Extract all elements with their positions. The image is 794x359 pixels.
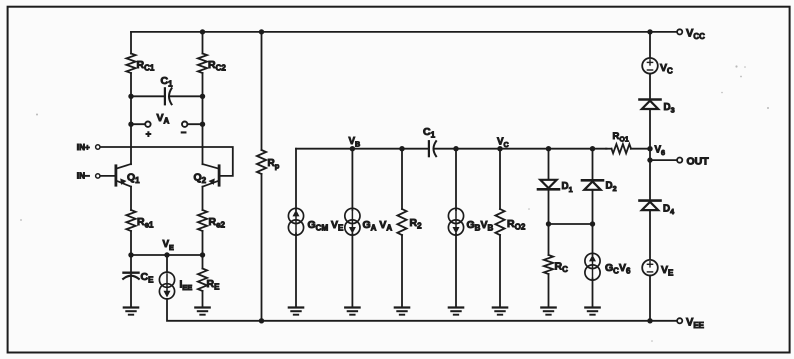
node GB junction [453, 146, 458, 151]
transistor Q2 [203, 164, 220, 187]
diode D2 [582, 180, 603, 190]
wire VA left stub [131, 123, 145, 125]
wire C1 right [171, 95, 203, 97]
svg-text:RO2: RO2 [507, 218, 526, 232]
svg-text:D3: D3 [664, 102, 675, 115]
wire IEE to VEE rail [167, 299, 262, 321]
svg-text:IN−: IN− [77, 172, 90, 181]
wire D1 top lead [548, 149, 550, 180]
svg-text:OUT: OUT [687, 156, 710, 168]
svg-text:RO1: RO1 [613, 131, 629, 144]
label Re1 [137, 216, 154, 230]
label Q2 [194, 171, 207, 185]
svg-text:VC: VC [660, 62, 673, 76]
ground RE [195, 308, 209, 315]
label D2 [606, 181, 617, 194]
node R2 junction [399, 146, 404, 151]
wire middle rail right [434, 148, 607, 150]
ground GC [585, 308, 599, 315]
capacitor C1 input [165, 88, 172, 104]
label C1 input [161, 75, 174, 89]
svg-text:GBVB: GBVB [467, 219, 494, 233]
voltage source VE [642, 260, 658, 276]
wire RC top lead [548, 224, 550, 255]
label VA minus sign [181, 127, 187, 138]
wire VA right stub [188, 123, 203, 125]
ground RC [541, 308, 555, 315]
current source GA [345, 208, 360, 235]
svg-text:Q1: Q1 [127, 171, 140, 185]
wire VE source to VEE [649, 276, 651, 321]
svg-text:Re1: Re1 [137, 216, 154, 230]
wire RC1 bottom lead [130, 73, 132, 96]
terminal IN+ [96, 145, 100, 149]
wire OUT tap to D4 [649, 160, 651, 201]
label VC node [497, 136, 509, 149]
node C1 left junction [128, 94, 133, 99]
wire VEE rail [262, 320, 677, 322]
wire Re2 bottom lead [202, 231, 204, 255]
svg-text:GA VA: GA VA [363, 219, 393, 233]
wire GC bottom lead [592, 279, 594, 308]
diode D4 [640, 201, 661, 211]
node V6 [647, 146, 652, 151]
ground CE [124, 308, 138, 315]
current source IEE [159, 272, 174, 299]
svg-text:+: + [146, 129, 152, 140]
wire GCM bottom lead [295, 234, 297, 308]
wire D2 top lead [592, 149, 594, 181]
node VB junction [350, 146, 355, 151]
node VE left junction [128, 252, 133, 257]
label VB node [349, 136, 361, 149]
ground GCM [289, 308, 303, 315]
svg-text:IEE: IEE [180, 280, 193, 293]
wire GA bottom lead [351, 234, 353, 308]
wire VC to D3 [649, 74, 651, 100]
label IEE [180, 280, 193, 293]
svg-text:C1: C1 [161, 75, 174, 89]
label D1 [562, 181, 573, 194]
wire GA top lead [351, 149, 353, 210]
label RE [207, 278, 221, 292]
wire D1-D2 connector [549, 223, 593, 225]
label RO2 [507, 218, 526, 232]
terminal VA plus [145, 122, 150, 127]
node VA right junction [200, 122, 205, 127]
svg-text:D4: D4 [663, 204, 674, 217]
wire GCM top lead [295, 149, 297, 210]
wire Rp top lead [261, 32, 263, 150]
label VE node [163, 239, 175, 252]
label CE [141, 271, 155, 285]
label C1 middle [423, 126, 436, 140]
terminal VCC [677, 29, 682, 34]
terminal OUT [677, 158, 682, 163]
label GCM [308, 219, 345, 233]
wire RC1 top lead [130, 32, 132, 54]
wire VC source top lead [649, 32, 651, 58]
node D1 junction [546, 146, 551, 151]
wire CE top lead [130, 255, 132, 272]
resistor RE [198, 269, 207, 292]
wire IN+ to Q2 base [100, 147, 233, 176]
ground GB [449, 308, 463, 315]
terminal VA minus [182, 122, 187, 127]
resistor RO1 [612, 144, 632, 153]
wire Q1 collector column [130, 96, 132, 164]
svg-text:V6: V6 [655, 145, 666, 158]
label Q1 [127, 171, 140, 185]
node VE IEE junction [164, 252, 169, 257]
wire GC top lead [592, 224, 594, 255]
svg-text:Q2: Q2 [194, 171, 207, 185]
svg-text:GCM VE: GCM VE [308, 219, 345, 233]
label OUT [687, 156, 710, 168]
node D2 junction [590, 146, 595, 151]
label RC2 [208, 59, 226, 73]
label Re2 [209, 216, 226, 230]
wire Q1 emitter lead [130, 187, 132, 210]
svg-text:VE: VE [661, 264, 674, 278]
wire RO2 top lead [499, 149, 501, 209]
resistor RC2 [198, 54, 207, 74]
label Rp [268, 158, 280, 171]
svg-text:D2: D2 [606, 181, 617, 194]
wire middle rail left [296, 148, 429, 150]
node OUT junction [647, 157, 652, 162]
svg-text:R2: R2 [410, 217, 423, 231]
capacitor CE [123, 273, 139, 279]
current source GB [448, 208, 463, 235]
node C1 right junction [200, 94, 205, 99]
svg-text:−: − [181, 127, 187, 138]
label VA [157, 112, 170, 126]
svg-text:GCV6: GCV6 [605, 262, 631, 276]
label D4 [663, 204, 674, 217]
svg-text:VE: VE [163, 239, 175, 252]
svg-text:VB: VB [349, 136, 361, 149]
node VC junction [497, 146, 502, 151]
wire R2 top lead [401, 149, 403, 209]
wire V6 to OUT tap [649, 149, 651, 160]
svg-text:Rp: Rp [268, 158, 280, 171]
wire RO2 bottom lead [499, 235, 501, 308]
svg-text:VCC: VCC [686, 27, 705, 41]
node junction Rp top [259, 29, 264, 34]
svg-text:Re2: Re2 [209, 216, 226, 230]
label RC [555, 261, 569, 275]
svg-text:CE: CE [141, 271, 155, 285]
svg-text:D1: D1 [562, 181, 573, 194]
label IN+ [77, 143, 90, 152]
ground R2 [395, 308, 409, 315]
wire GB bottom lead [455, 234, 457, 308]
ground GA [345, 308, 359, 315]
label VE source [661, 264, 674, 278]
wire D3 to V6 [649, 109, 651, 149]
diode D1 [538, 180, 559, 190]
wire RC bottom lead [548, 274, 550, 308]
node junction RC2 top [200, 29, 205, 34]
terminal IN- [96, 174, 100, 178]
resistor RC1 [126, 54, 135, 74]
resistor R2 [397, 209, 406, 235]
node junction VC column top [647, 29, 652, 34]
node D1 lower junction [546, 221, 551, 226]
wire D2 bottom lead [592, 190, 594, 224]
svg-text:IN+: IN+ [77, 143, 90, 152]
resistor Rp [257, 150, 266, 174]
resistor Re2 [198, 210, 207, 231]
current source GC [585, 253, 600, 280]
svg-text:RC1: RC1 [137, 59, 155, 73]
current source GCM [288, 208, 303, 235]
label RO1 [613, 131, 629, 144]
wire GB top lead [455, 149, 457, 210]
label VA plus sign [146, 129, 152, 140]
wire R2 bottom lead [401, 235, 403, 308]
label IN- [77, 172, 90, 181]
wire RE top lead [202, 255, 204, 269]
wire RE bottom lead [202, 291, 204, 308]
label VEE [686, 316, 705, 330]
label GA [363, 219, 393, 233]
svg-text:RC2: RC2 [208, 59, 226, 73]
wire Q2 emitter lead [202, 187, 204, 210]
svg-text:C1: C1 [423, 126, 436, 140]
wire IEE top lead [166, 255, 168, 272]
wire VCC top rail [131, 31, 676, 33]
wire RO1 approach [606, 148, 612, 150]
node D2 lower junction [590, 221, 595, 226]
resistor RC [544, 255, 553, 274]
wire D1 bottom lead [548, 189, 550, 224]
wire OUT [650, 159, 676, 161]
svg-text:VEE: VEE [686, 316, 705, 330]
label GB [467, 219, 494, 233]
node VA left junction [128, 122, 133, 127]
wire Q2 collector column [202, 96, 204, 164]
resistor RO2 [495, 209, 504, 235]
label V6 [655, 145, 666, 158]
ground RO2 [493, 308, 507, 315]
diode D3 [640, 100, 661, 110]
wire D4 to VE source [649, 210, 651, 260]
wire IN- to Q1 base [100, 175, 114, 177]
label D3 [664, 102, 675, 115]
wire VE node [131, 254, 203, 256]
wire RC2 bottom lead [202, 73, 204, 96]
terminal VEE [677, 318, 682, 323]
svg-text:RC: RC [555, 261, 569, 275]
transistor Q1 [116, 164, 131, 187]
node VEE Rp junction [259, 318, 264, 323]
capacitor C1 middle [429, 141, 436, 156]
label R2 [410, 217, 423, 231]
label GC [605, 262, 631, 276]
label VC source [660, 62, 673, 76]
node VE right junction [200, 252, 205, 257]
wire C1 left [131, 95, 165, 97]
voltage source VC [642, 58, 658, 74]
label RC1 [137, 59, 155, 73]
wire Rp bottom lead [261, 174, 263, 321]
svg-text:VA: VA [157, 112, 170, 126]
wire Re1 bottom lead [130, 231, 132, 255]
svg-text:VC: VC [497, 136, 509, 149]
speckle noise [20, 65, 769, 341]
node VEE output column junction [647, 318, 652, 323]
wire CE bottom lead [130, 275, 132, 308]
svg-text:RE: RE [207, 278, 221, 292]
label VCC [686, 27, 705, 41]
wire RC2 top lead [202, 32, 204, 54]
resistor Re1 [126, 210, 135, 231]
wire RO1 to V6 [631, 148, 650, 150]
